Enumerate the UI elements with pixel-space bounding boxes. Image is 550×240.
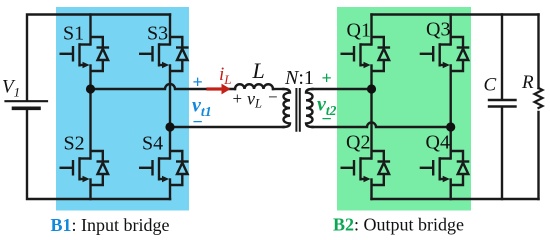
wire: capacitor branch bottom xyxy=(501,107,503,199)
wire: S4 source to bottom rail xyxy=(169,180,171,200)
wire: left rail bottom (battery to bottom rail) xyxy=(27,110,170,200)
wire: transformer secondary bottom to node D with hop over Q1 leg xyxy=(313,123,451,127)
svg-text:−: − xyxy=(322,109,332,129)
B2 output bridge highlight region xyxy=(337,7,471,211)
wire: Q1 drain xyxy=(370,15,372,45)
transistor Q4 xyxy=(420,151,470,185)
transformer secondary winding xyxy=(306,89,313,127)
wire: S4 drain from node B xyxy=(169,127,171,159)
svg-text:N:1: N:1 xyxy=(284,67,314,89)
svg-text:R: R xyxy=(521,72,534,93)
node A junction dot xyxy=(86,84,95,93)
capacitor C plates xyxy=(489,100,516,107)
inductor L xyxy=(235,84,273,89)
svg-text:Q4: Q4 xyxy=(426,132,450,154)
wire: S2 drain from node A xyxy=(89,89,91,159)
svg-text:+: + xyxy=(193,72,203,92)
inductor current arrow iL xyxy=(207,84,231,95)
svg-text:C: C xyxy=(484,75,497,96)
wire: Q1 source to node C xyxy=(370,66,372,90)
wire: resistor branch bottom xyxy=(537,112,539,199)
svg-text:Q2: Q2 xyxy=(346,132,370,154)
transistor Q3 xyxy=(420,37,470,71)
svg-text:S2: S2 xyxy=(64,133,85,155)
wire: resistor branch top xyxy=(537,15,539,89)
wire: Q2 drain from node C xyxy=(370,89,372,159)
wire: node B to transformer primary bottom xyxy=(170,126,284,128)
transformer primary winding xyxy=(284,89,291,127)
battery V1 short plate xyxy=(14,107,40,111)
svg-text:Q3: Q3 xyxy=(426,19,450,41)
svg-text:+: + xyxy=(233,89,243,108)
svg-text:B1: Input bridge: B1: Input bridge xyxy=(51,215,170,235)
svg-text:B2: Output bridge: B2: Output bridge xyxy=(333,215,464,235)
svg-text:L: L xyxy=(252,58,265,83)
wire: Q4 drain from node D xyxy=(450,127,452,159)
wire: right rail top xyxy=(372,13,539,15)
resistor R zigzag xyxy=(535,88,543,108)
wire: node A to inductor with hop over S3 leg xyxy=(91,84,236,89)
wire: Q3 drain xyxy=(450,15,452,45)
B1 input bridge highlight region xyxy=(56,7,189,211)
wire: S1 source to node A xyxy=(89,66,91,90)
wire: S3 source to node B xyxy=(169,66,171,128)
svg-text:S3: S3 xyxy=(147,23,168,45)
node B junction dot xyxy=(165,122,174,131)
svg-text:−: − xyxy=(268,88,278,107)
node D junction dot xyxy=(446,122,455,131)
transistor Q1 xyxy=(341,37,391,71)
wire: inductor to transformer primary xyxy=(273,88,284,90)
node C junction dot xyxy=(367,84,376,93)
wire: Q2 source to bottom rail xyxy=(370,180,372,200)
svg-text:−: − xyxy=(193,112,203,132)
svg-text:Q1: Q1 xyxy=(347,20,371,42)
svg-text:+: + xyxy=(322,68,332,88)
transistor Q2 xyxy=(341,151,391,185)
transistor S3 xyxy=(139,37,189,71)
wire: S2 source to bottom rail xyxy=(89,180,91,200)
wire: Q3 source to node D xyxy=(450,66,452,128)
wire: left rail top (battery to top rail to S3 drain) xyxy=(27,15,170,101)
transistor S1 xyxy=(60,37,110,71)
wire: S1 drain xyxy=(89,15,91,45)
wire: Q4 source to bottom rail xyxy=(450,180,452,200)
transistor S4 xyxy=(139,151,189,185)
wire: right rail bottom xyxy=(372,198,539,200)
transformer core xyxy=(296,89,299,131)
wire: S3 drain xyxy=(169,15,171,45)
wire: capacitor branch top xyxy=(501,15,503,100)
wire: transformer secondary top to node C xyxy=(313,88,372,90)
svg-text:S4: S4 xyxy=(142,133,163,155)
transistor S2 xyxy=(60,151,110,185)
battery V1 long plate xyxy=(6,100,48,102)
svg-text:S1: S1 xyxy=(63,23,84,45)
